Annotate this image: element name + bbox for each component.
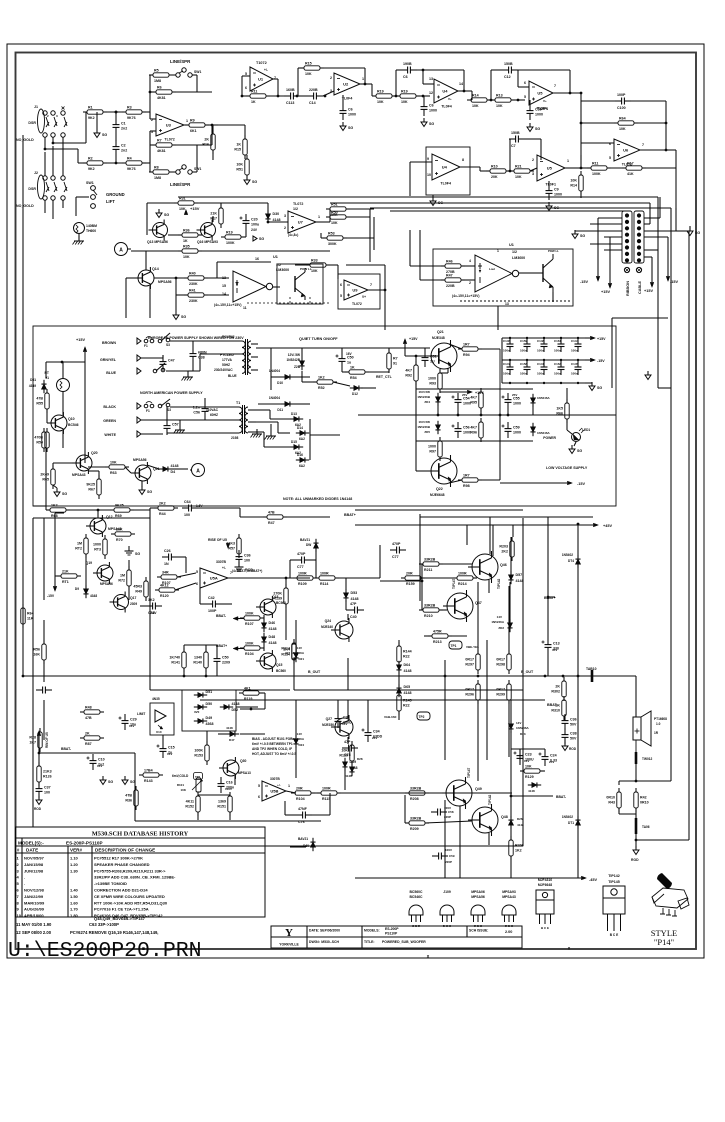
label TIP142 vert xyxy=(497,578,501,589)
resistor R298 xyxy=(496,650,511,674)
svg-text:C15: C15 xyxy=(168,746,175,750)
wire R16 top xyxy=(212,125,214,134)
capacitor C51 xyxy=(422,351,437,367)
wire r95 mid xyxy=(480,408,482,415)
svg-text:DW: DW xyxy=(306,543,311,547)
diode ZD21 xyxy=(293,649,298,662)
svg-text:LIFT: LIFT xyxy=(106,199,115,204)
wire d53-c40 xyxy=(345,600,347,610)
label STYLE xyxy=(651,928,677,938)
wire jack bundle vertical 2 xyxy=(52,146,54,176)
wire ch drop xyxy=(270,424,272,431)
svg-text:MJF6648: MJF6648 xyxy=(538,883,552,887)
transistor Q12 (MPSA43) xyxy=(86,515,106,537)
wire bias bot2 xyxy=(229,812,231,820)
svg-text:SPEAKER PHASE CHANGED: SPEAKER PHASE CHANGED xyxy=(94,862,150,867)
op-amp U1 (TL072) stage1 xyxy=(245,67,276,91)
resistor R145 xyxy=(397,691,412,715)
wire x135 bias xyxy=(135,820,198,822)
label 14V xyxy=(497,615,502,619)
svg-text:10K: 10K xyxy=(179,207,186,211)
svg-text:1.0: 1.0 xyxy=(656,722,661,726)
svg-text:14V: 14V xyxy=(516,721,521,725)
svg-text:6: 6 xyxy=(609,142,611,146)
svg-text:100K: 100K xyxy=(194,749,203,753)
resistor R67 xyxy=(86,475,101,499)
stub r54 xyxy=(342,371,349,373)
wire c13 top xyxy=(547,517,549,638)
wire qt left v xyxy=(270,348,272,390)
wire r126 c37 xyxy=(38,781,40,783)
label T1072 1/2 a xyxy=(293,202,303,206)
svg-text:R96: R96 xyxy=(470,431,477,435)
resistor R152 xyxy=(185,792,200,816)
svg-text:10K: 10K xyxy=(305,72,312,76)
rail +15V right c xyxy=(650,282,654,287)
label -15V bank xyxy=(597,359,605,363)
label BBAT+ right xyxy=(544,596,556,600)
label D11 xyxy=(277,408,283,412)
label RT xyxy=(44,371,49,375)
svg-text:1N5246B: 1N5246B xyxy=(417,425,431,429)
resistor R48 xyxy=(80,705,104,720)
label D28 xyxy=(357,757,363,761)
resistor R47 xyxy=(441,273,465,288)
wire r65 top xyxy=(52,463,54,469)
label ZD5 xyxy=(424,430,430,434)
diode ZD5 xyxy=(435,421,440,434)
resistor R44 xyxy=(154,501,178,516)
svg-text:SG: SG xyxy=(130,780,135,784)
wire c38 top xyxy=(192,341,194,347)
svg-text:NO_GOLD: NO_GOLD xyxy=(16,138,34,142)
svg-text:C9: C9 xyxy=(554,188,559,192)
svg-text:R31: R31 xyxy=(179,196,186,200)
svg-text:13: 13 xyxy=(505,302,509,306)
wire R8 stub xyxy=(150,171,153,173)
svg-text:BC560: BC560 xyxy=(276,601,286,605)
wire R3 to U3 xyxy=(142,111,150,113)
svg-text:A: A xyxy=(119,248,123,254)
svg-text:5: 5 xyxy=(340,294,342,298)
chassis ground below TH600 xyxy=(73,236,85,245)
label D21 xyxy=(298,657,304,661)
package TO-92 MPSA93 xyxy=(502,890,516,928)
wire r54 l xyxy=(341,368,343,372)
svg-text:160B: 160B xyxy=(286,88,295,92)
wire -15V drop a xyxy=(597,218,599,276)
amp box right edge xyxy=(522,518,524,846)
svg-text:+/-: +/- xyxy=(277,783,281,787)
node spk gnd row xyxy=(635,839,638,842)
svg-text:C100: C100 xyxy=(617,106,626,110)
svg-text:1.10: 1.10 xyxy=(70,856,79,861)
label LED1 xyxy=(582,428,590,432)
switch EU line2 xyxy=(153,363,165,373)
svg-text:DT1: DT1 xyxy=(568,821,574,825)
box mute output stage xyxy=(277,264,323,304)
wire q48 down xyxy=(488,833,490,845)
wire conn left 3 xyxy=(575,230,622,232)
speaker LS1 xyxy=(633,711,667,746)
svg-text:1000: 1000 xyxy=(93,543,101,547)
svg-text:DATE: DATE xyxy=(26,848,38,853)
svg-text:R17: R17 xyxy=(627,161,634,165)
stub q10 xyxy=(46,422,48,424)
wire drop right fb xyxy=(665,101,667,150)
label TL0F4 u5 xyxy=(538,107,548,111)
label +15V reg xyxy=(76,338,85,342)
svg-text:190B: 190B xyxy=(403,62,412,66)
label 1N5246B zd4 xyxy=(417,395,431,399)
wire d9 top xyxy=(85,554,87,588)
svg-text:TL0F1: TL0F1 xyxy=(545,183,556,187)
resistor RT3 xyxy=(93,535,107,559)
svg-text:C77: C77 xyxy=(392,555,399,559)
svg-text:150B: 150B xyxy=(511,131,520,135)
svg-text:4349: 4349 xyxy=(29,384,36,388)
label 24V xyxy=(251,228,258,232)
svg-text:ROD: ROD xyxy=(34,807,42,811)
resistor R64 fb xyxy=(21,604,34,628)
svg-text:MPSA43: MPSA43 xyxy=(72,473,86,477)
resistor R68 xyxy=(46,503,70,518)
resistor R11 chain xyxy=(246,89,270,104)
svg-text:C26: C26 xyxy=(164,549,171,553)
svg-text:16V: 16V xyxy=(167,752,172,756)
stub c40 xyxy=(346,609,348,611)
ground SG below u4 xyxy=(421,118,434,127)
svg-text:1.6V: 1.6V xyxy=(196,504,203,508)
label U1 xyxy=(273,255,278,259)
wire r139 top xyxy=(285,578,287,588)
svg-text:R67: R67 xyxy=(88,488,95,492)
wire r210 out xyxy=(439,609,447,611)
node j1 pin1 xyxy=(44,148,47,151)
label LOW VOLTAGE SUPPLY xyxy=(546,466,588,470)
wire mfb3 fb lv xyxy=(395,70,397,96)
label NA PS xyxy=(140,391,203,395)
wire J1 pin2 b xyxy=(53,142,86,144)
diode D10 xyxy=(281,374,294,379)
wire r72 up xyxy=(128,560,130,570)
capacitor C38m xyxy=(562,728,577,744)
resistor R104b xyxy=(240,641,264,656)
power transistor Q22 (MJE350) xyxy=(427,455,457,487)
wire r145 bot xyxy=(398,711,400,720)
capacitor C23q xyxy=(514,749,534,765)
wire 840 right xyxy=(636,839,689,841)
wire fb top c100 r xyxy=(629,100,666,102)
diode D60 xyxy=(310,838,315,851)
label 1N5246A z21 xyxy=(291,651,305,655)
wire C1 top xyxy=(115,112,117,118)
label T1 xyxy=(236,401,240,405)
svg-text:V+: V+ xyxy=(543,99,547,103)
svg-text:6A2: 6A2 xyxy=(299,437,305,441)
node 500 mid xyxy=(499,414,502,417)
label Q27 xyxy=(326,717,333,721)
capacitor C13b xyxy=(542,638,560,654)
wire left edge drop xyxy=(33,505,46,507)
switch jack SW2b xyxy=(173,165,201,174)
svg-text:110VAC: 110VAC xyxy=(206,408,219,412)
wire zd23 up xyxy=(510,700,512,723)
resistor R63 xyxy=(105,460,129,475)
svg-text:DESCRIPTION OF CHANGE: DESCRIPTION OF CHANGE xyxy=(95,848,155,853)
label ZD4 xyxy=(424,400,430,404)
svg-text:14: 14 xyxy=(222,292,226,296)
svg-text:BAV21: BAV21 xyxy=(300,538,310,542)
svg-text:DT4: DT4 xyxy=(568,559,574,563)
wire dt4 up xyxy=(577,524,579,558)
chassis ground xfmr B xyxy=(265,431,277,440)
svg-text:100n: 100n xyxy=(571,349,578,353)
wire c34 q xyxy=(367,700,369,726)
svg-text:TL0F4: TL0F4 xyxy=(441,105,452,109)
svg-text:16V/.5W: 16V/.5W xyxy=(418,390,430,394)
svg-text:R143: R143 xyxy=(144,779,153,783)
svg-text:D26: D26 xyxy=(517,817,523,821)
resistor R31 xyxy=(174,196,198,211)
svg-text:177VA: 177VA xyxy=(222,358,232,362)
svg-text:LED1: LED1 xyxy=(582,428,590,432)
svg-text:14V: 14V xyxy=(497,615,502,619)
label LM3600 xyxy=(276,268,289,272)
wire J1 pin1 a xyxy=(44,137,46,149)
wire r40 out xyxy=(204,277,229,279)
wire conn right 4 xyxy=(644,256,652,258)
svg-text:PC#6274 REMOVE Q16,19 R146,147: PC#6274 REMOVE Q16,19 R146,147,148,149, xyxy=(70,930,158,935)
resistor R151 xyxy=(217,792,232,816)
node r11 xyxy=(580,167,583,170)
resistor R17 xyxy=(622,161,646,176)
svg-text:25V: 25V xyxy=(512,393,517,397)
svg-text:NOV/05/97: NOV/05/97 xyxy=(24,856,45,861)
capacitor C29 xyxy=(119,714,137,730)
opto internals U10 xyxy=(155,710,166,734)
label 1.6V xyxy=(196,504,203,508)
inductor TW012 (shorting strap) xyxy=(636,740,653,764)
label MPSA56 q19 xyxy=(100,582,113,586)
svg-text:R104: R104 xyxy=(245,652,254,656)
svg-text:R114: R114 xyxy=(320,582,328,586)
wire r213 l xyxy=(424,635,432,637)
capacitor C59q xyxy=(432,853,448,860)
label 16V/.5W zd4 xyxy=(418,390,430,394)
svg-text:1/2: 1/2 xyxy=(512,250,517,254)
connector pin mark x xyxy=(62,107,65,110)
svg-text:D28: D28 xyxy=(357,757,363,761)
wire e col r up xyxy=(508,586,510,654)
wire A tick xyxy=(128,248,131,250)
label LINE/SPR top xyxy=(170,59,191,64)
svg-text:2K: 2K xyxy=(85,731,90,735)
wire pin16 xyxy=(217,261,271,263)
ground sg regbox xyxy=(125,546,141,556)
svg-text:LOW VOLTAGE SUPPLY: LOW VOLTAGE SUPPLY xyxy=(546,466,588,470)
wire +15V drop b xyxy=(609,237,611,283)
svg-text:4K1: 4K1 xyxy=(244,686,251,690)
wire drop left fb xyxy=(580,93,582,168)
label RIBBON xyxy=(626,281,630,296)
capacitor C38 (680N X2) xyxy=(190,347,207,363)
wire u2 out xyxy=(360,83,372,85)
wire r33 l xyxy=(295,264,310,266)
label Q20 xyxy=(91,451,98,455)
svg-text:-15V: -15V xyxy=(580,280,588,284)
wire na white2 xyxy=(167,432,239,434)
transistor Q11 (MPSA56) xyxy=(131,462,151,484)
svg-text:1000: 1000 xyxy=(554,193,562,197)
svg-text:SG: SG xyxy=(535,127,540,131)
svg-text:12: 12 xyxy=(429,91,433,95)
wire u1 in5 xyxy=(242,75,250,77)
label MPSA56 q11 xyxy=(133,458,147,462)
node bout 478 xyxy=(477,675,480,678)
svg-text:R14: R14 xyxy=(472,93,479,97)
diode D53 xyxy=(343,589,358,602)
label 1N5246A zd6 xyxy=(537,431,551,435)
node bout 578 xyxy=(577,675,580,678)
svg-text:47P: 47P xyxy=(350,602,357,606)
resistor RT2 xyxy=(75,534,88,558)
package TO-92 BC560C xyxy=(409,890,423,928)
wire d26 v2 xyxy=(510,826,512,840)
wire reg left v xyxy=(45,362,47,378)
rail +15V left reg xyxy=(83,347,87,352)
svg-text:R3: R3 xyxy=(127,105,132,109)
wire q46 down xyxy=(488,580,490,593)
wire d26 v xyxy=(510,796,512,818)
svg-text:4K81: 4K81 xyxy=(157,96,166,100)
svg-text:6: 6 xyxy=(340,283,342,287)
wire U3 out xyxy=(184,124,189,126)
wire x150 spine xyxy=(149,508,151,690)
svg-text:R9: R9 xyxy=(190,118,195,122)
label 25V c54 xyxy=(462,393,467,397)
label LINE/SPR bottom xyxy=(170,182,191,187)
wire u1b drop1 xyxy=(497,306,499,330)
wire r203 top xyxy=(511,537,513,541)
svg-text:2.4V: 2.4V xyxy=(150,611,157,615)
wire t1 to bridge 2c xyxy=(278,432,290,434)
wire u9 top link xyxy=(384,265,386,290)
svg-text:Q20: Q20 xyxy=(91,451,98,455)
svg-text:LINE/SPR: LINE/SPR xyxy=(170,59,191,64)
svg-text:TL0F4: TL0F4 xyxy=(440,182,451,186)
amp box left edge xyxy=(32,518,34,827)
svg-text:14V: 14V xyxy=(297,732,302,736)
svg-text:2: 2 xyxy=(330,76,332,80)
svg-text:4148: 4148 xyxy=(269,641,277,645)
label D12 xyxy=(352,392,358,396)
wire u4c in xyxy=(410,161,432,163)
label 6A2 d14 xyxy=(299,437,305,441)
wire rt1 down xyxy=(62,392,64,415)
wire na white xyxy=(167,432,239,434)
resistor R153 xyxy=(194,741,209,765)
resistor R57 xyxy=(226,534,241,558)
resistor R213 xyxy=(428,629,452,644)
resistor R70 xyxy=(111,527,135,542)
svg-text:D46: D46 xyxy=(269,621,276,625)
svg-text:D51: D51 xyxy=(30,378,36,382)
svg-text:+15V: +15V xyxy=(601,290,610,294)
resistor R51 xyxy=(236,155,249,179)
svg-text:21K3: 21K3 xyxy=(43,770,52,774)
label B_OUT right xyxy=(521,670,534,674)
wire u4c out xyxy=(460,166,480,168)
label 6mV,COLD xyxy=(172,774,189,778)
resistor R214m xyxy=(281,639,296,663)
svg-text:C13: C13 xyxy=(553,642,560,646)
svg-text:MJE348: MJE348 xyxy=(432,336,445,340)
wire r68 left v xyxy=(46,509,50,511)
wire q49 col v xyxy=(444,800,446,878)
svg-text:1K: 1K xyxy=(236,143,241,147)
svg-text:R54: R54 xyxy=(350,376,357,380)
svg-text:47NF: 47NF xyxy=(298,807,308,811)
label D16 xyxy=(297,453,303,457)
svg-text:R98: R98 xyxy=(463,484,470,488)
wire q27 down xyxy=(347,737,349,744)
resistor R9 xyxy=(185,118,209,133)
wire r140 bot xyxy=(205,668,207,676)
wire r19 in xyxy=(372,95,376,97)
label 4148 d28 xyxy=(345,774,352,778)
resistor R41 xyxy=(184,288,208,303)
wire amp mid h2 xyxy=(347,658,349,690)
svg-text:26V: 26V xyxy=(372,736,377,740)
svg-text:U1: U1 xyxy=(509,243,514,247)
capacitor C42 xyxy=(206,596,222,613)
svg-text:+45V: +45V xyxy=(603,524,612,528)
svg-text:1.20: 1.20 xyxy=(70,862,79,867)
wire left rail U3 xyxy=(149,75,151,119)
wire q11-d4 xyxy=(147,465,159,469)
svg-text:Q49: Q49 xyxy=(475,787,482,791)
svg-text:1K: 1K xyxy=(350,365,355,369)
svg-text:7: 7 xyxy=(642,143,644,147)
node c14 r xyxy=(324,95,327,98)
svg-text:4148: 4148 xyxy=(351,597,359,601)
resistor R7q xyxy=(387,349,398,373)
svg-text:R11: R11 xyxy=(251,89,257,93)
wire t1 to bridge 1c xyxy=(270,418,290,420)
resistor R141 xyxy=(169,648,186,672)
svg-text:100n: 100n xyxy=(503,372,510,376)
svg-text:B C E: B C E xyxy=(541,926,549,930)
svg-text:R203: R203 xyxy=(499,545,508,549)
svg-text:D12: D12 xyxy=(352,392,358,396)
chassis ground below C38 xyxy=(182,372,194,381)
svg-text:MAR/10/99: MAR/10/99 xyxy=(24,900,45,905)
wire c77 drop l xyxy=(289,560,291,578)
svg-text:16V: 16V xyxy=(524,759,529,763)
svg-text:1: 1 xyxy=(186,119,188,123)
wire q14-r40 xyxy=(154,277,188,279)
wire zd24 v xyxy=(295,700,297,738)
terminal TAB10 xyxy=(586,667,597,682)
diode D51 xyxy=(41,380,46,393)
wire r119 loop a xyxy=(259,692,265,694)
svg-text:R210: R210 xyxy=(424,614,433,618)
svg-text:SG: SG xyxy=(429,122,434,126)
wire regbox left xyxy=(54,513,56,579)
label R60 xyxy=(222,335,235,339)
wire r92-q22 xyxy=(415,381,417,471)
